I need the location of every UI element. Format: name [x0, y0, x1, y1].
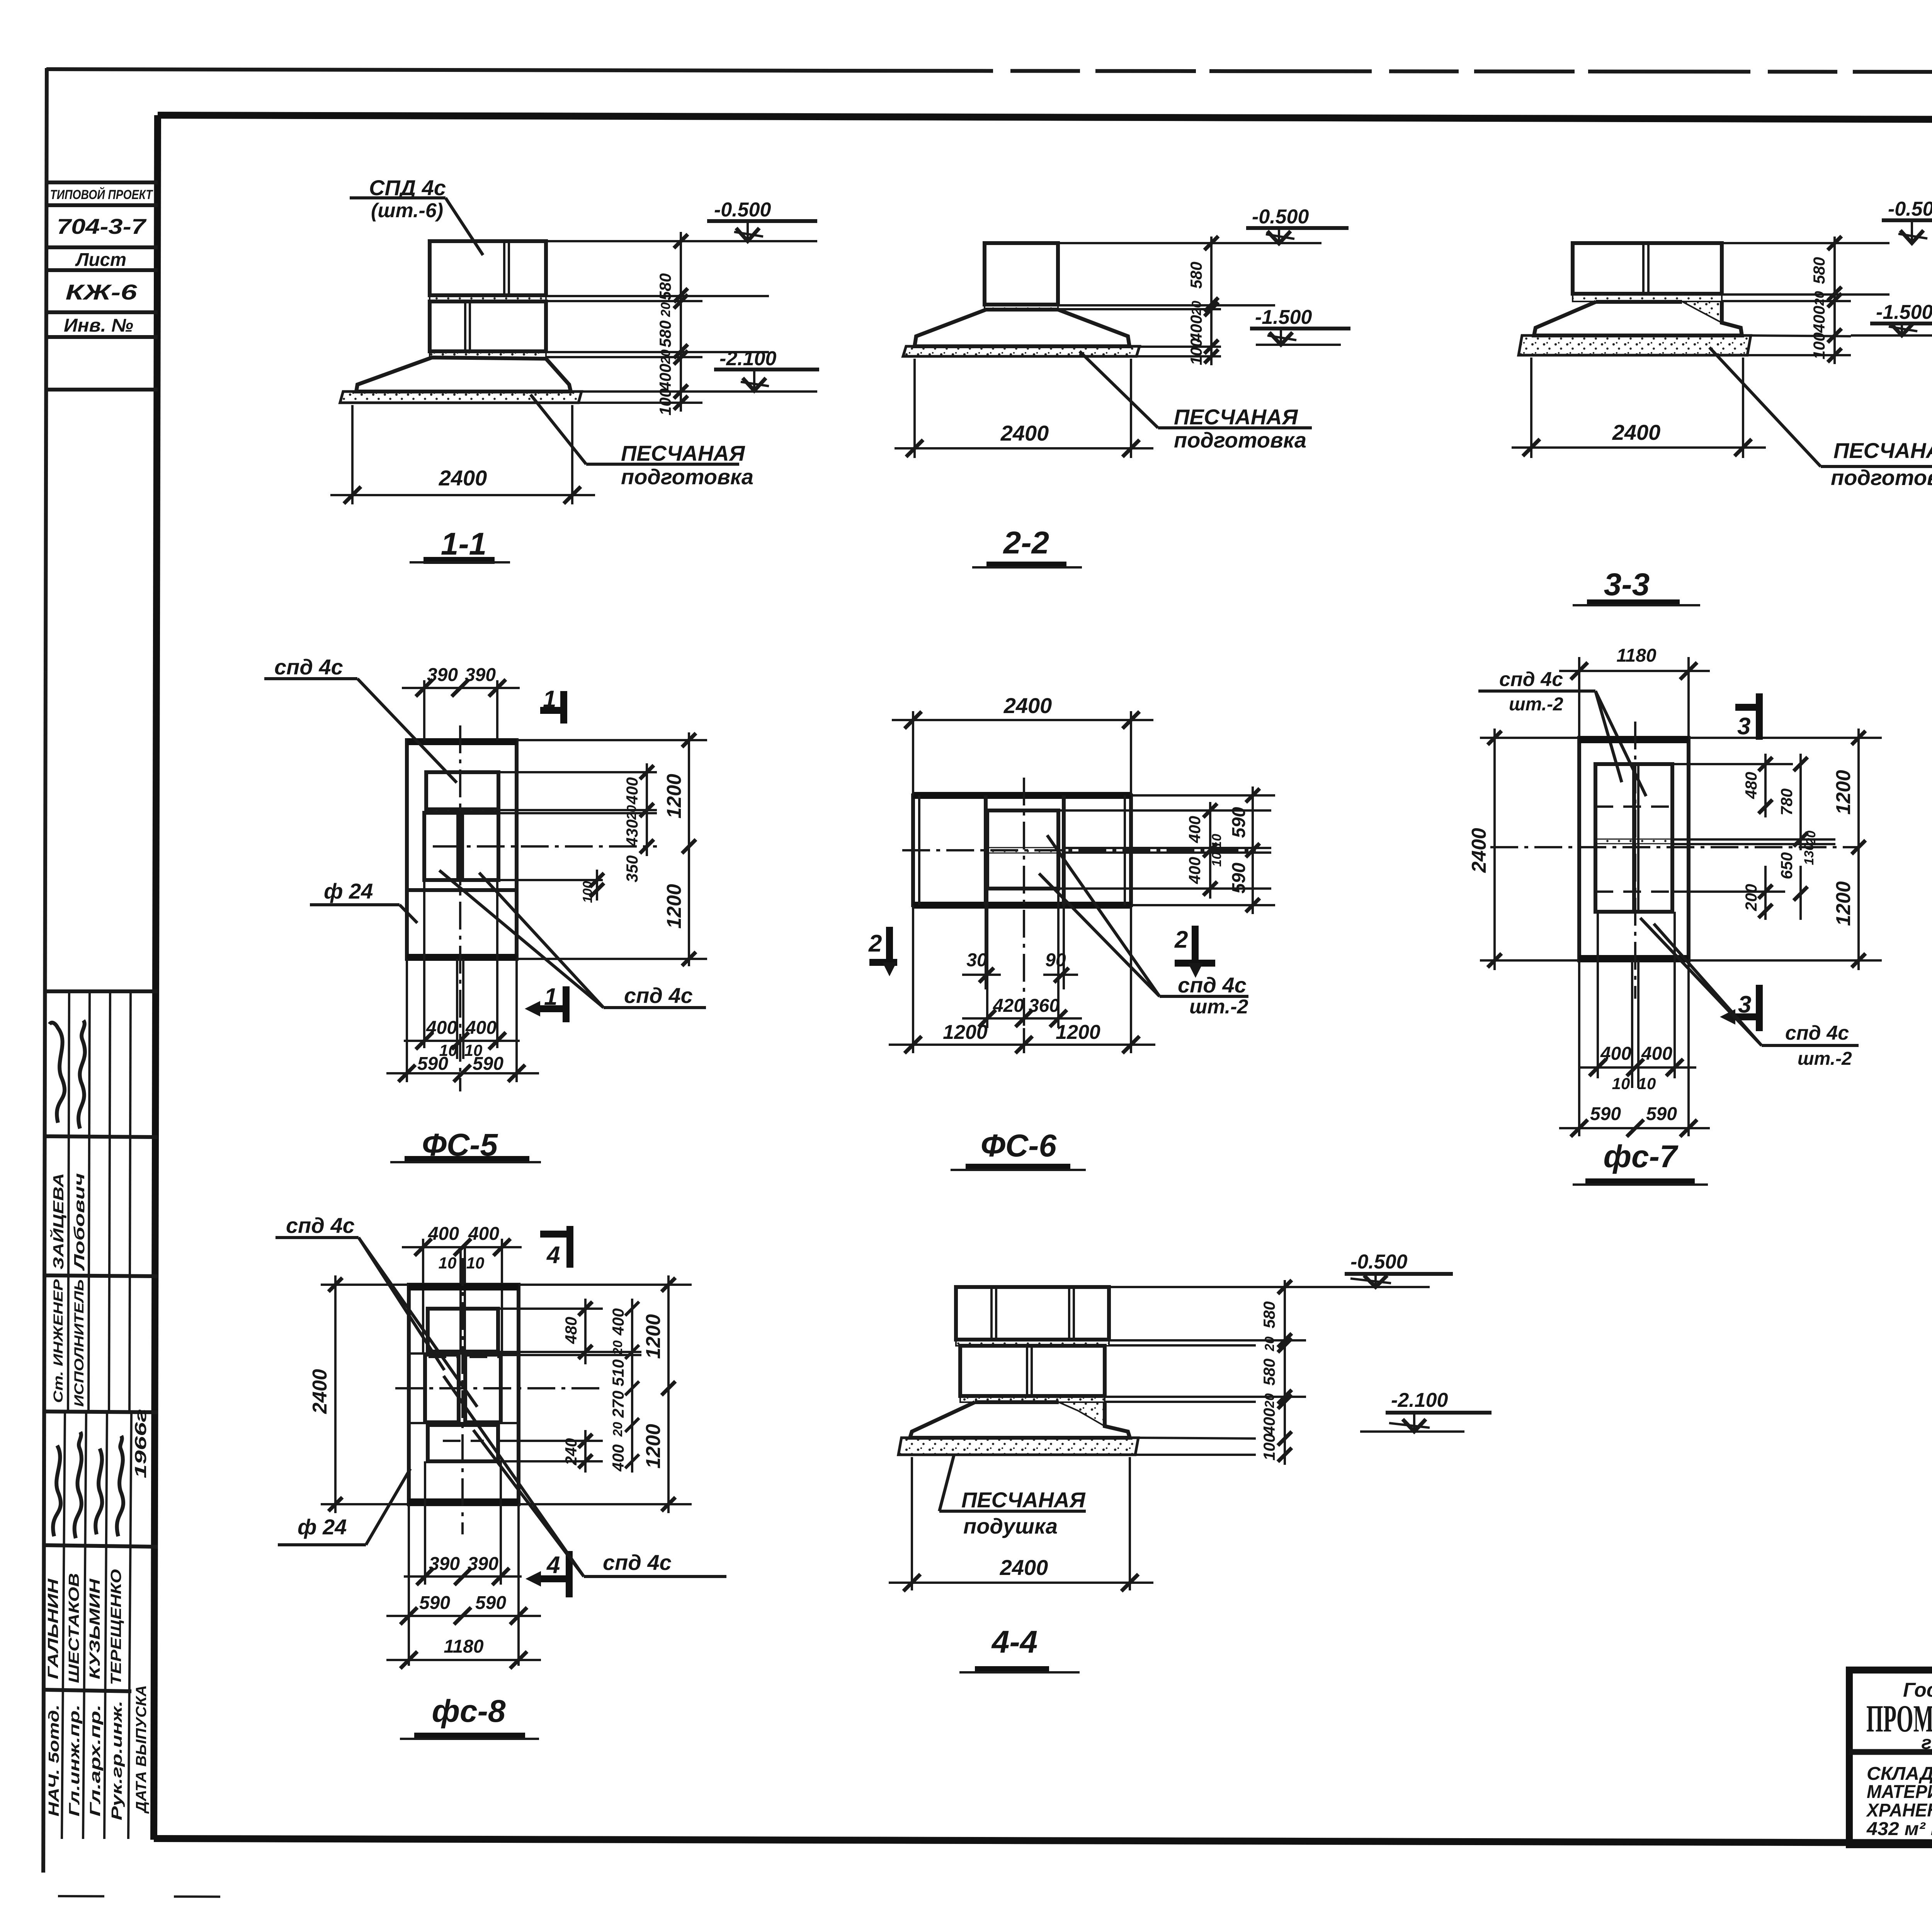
plan ФС-6 center line horizontal (dash-dot) — [902, 849, 1256, 851]
svg-text:Гл.арх.пр.: Гл.арх.пр. — [87, 1704, 104, 1817]
svg-text:1200: 1200 — [1056, 1021, 1100, 1044]
svg-text:-1.500: -1.500 — [1255, 306, 1312, 329]
svg-text:2400: 2400 — [1612, 420, 1661, 444]
svg-text:20: 20 — [1812, 291, 1827, 306]
svg-text:590: 590 — [419, 1593, 450, 1613]
svg-text:ПЕСЧАНАЯ: ПЕСЧАНАЯ — [961, 1488, 1086, 1512]
plan ФС-5 label СПД 4с top left — [264, 655, 457, 783]
svg-text:2400: 2400 — [1003, 693, 1052, 718]
stamp signature squiggle 2 — [78, 1020, 85, 1129]
section 4-4 title — [959, 1624, 1080, 1672]
svg-text:400: 400 — [623, 777, 641, 805]
section 1-1 wall block course 2 — [430, 301, 546, 351]
plan ФС-6 pad outline — [913, 795, 1131, 905]
svg-text:фс-8: фс-8 — [432, 1694, 505, 1729]
svg-text:704-3-7: 704-3-7 — [57, 214, 147, 238]
svg-text:Лист: Лист — [75, 250, 126, 270]
svg-text:(шт.-6): (шт.-6) — [371, 199, 443, 222]
svg-text:ХРАНЕНИЯ ПЛОЩАДЬЮ: ХРАНЕНИЯ ПЛОЩАДЬЮ — [1866, 1800, 1932, 1821]
svg-text:1200: 1200 — [642, 1314, 665, 1359]
svg-text:ПЕСЧАНАЯ: ПЕСЧАНАЯ — [1174, 405, 1298, 429]
stamp lower signature group box — [44, 1412, 158, 1839]
svg-text:270: 270 — [609, 1391, 627, 1418]
plan ФС-7 center line vertical (dash-dot) — [1634, 722, 1636, 999]
main frame left heavy line — [154, 115, 158, 1840]
svg-text:430: 430 — [623, 819, 641, 847]
plan ФС-8 middle wall blocks pair — [425, 1355, 501, 1422]
plan ФС-7 wall blocks inner rectangle — [1595, 764, 1672, 912]
svg-text:20: 20 — [1262, 1393, 1277, 1408]
plan ФС-8 label СПД 4с bottom right with leaders — [444, 1376, 726, 1577]
svg-text:подготовка: подготовка — [1831, 465, 1932, 490]
svg-text:Рук.гр.инж.: Рук.гр.инж. — [109, 1701, 125, 1820]
svg-text:400: 400 — [656, 364, 674, 391]
section 2-2 mortar band — [985, 305, 1058, 310]
svg-text:480: 480 — [562, 1317, 580, 1344]
svg-text:фс-7: фс-7 — [1603, 1139, 1678, 1174]
plan ФС-8 section mark 4 bottom — [526, 1551, 569, 1597]
svg-text:400: 400 — [465, 1018, 497, 1038]
plan ФС-7 inner cross horizontal mortar strip — [1595, 839, 1672, 844]
svg-text:400: 400 — [1600, 1044, 1631, 1064]
svg-text:ПЕСЧАНАЯ: ПЕСЧАНАЯ — [1833, 438, 1932, 463]
plan ФС-7 right chain 480 — [1672, 754, 1793, 817]
svg-text:10: 10 — [1612, 1074, 1630, 1093]
svg-text:1180: 1180 — [1616, 645, 1656, 666]
svg-text:400: 400 — [1641, 1044, 1672, 1064]
svg-text:20: 20 — [611, 1340, 625, 1355]
section 1-1 label Песчаная подготовка — [531, 395, 753, 489]
section 3-3 mortar band — [1573, 294, 1722, 301]
svg-text:400: 400 — [1185, 857, 1204, 884]
section 3-3 elevation mark -0.500 — [1882, 198, 1932, 243]
plan ФС-7 center line horizontal (dash-dot) — [1490, 846, 1859, 848]
section 1-1 elevation mark -0.500 — [707, 199, 817, 241]
section 1-1 dimension 2400 — [330, 405, 595, 504]
plan ФС-5 label СПД 4с bottom right with leaders — [439, 870, 706, 1008]
svg-text:580: 580 — [656, 273, 674, 300]
svg-text:1200: 1200 — [642, 1424, 665, 1469]
svg-text:1: 1 — [544, 984, 557, 1010]
plan ФС-8 right middle chain labels column — [609, 1299, 639, 1473]
plan ФС-6 bottom dimension 1200/1200 — [889, 905, 1155, 1053]
svg-text:1200: 1200 — [663, 884, 685, 929]
plan ФС-6 wall block rectangle — [987, 810, 1058, 889]
svg-text:10: 10 — [439, 1254, 457, 1272]
plan ФС-7 title — [1573, 1139, 1708, 1185]
svg-text:390: 390 — [468, 1554, 498, 1574]
svg-text:580: 580 — [1260, 1359, 1278, 1386]
section 4-4 elevation mark -0.500 — [1329, 1251, 1453, 1287]
outer thin border left line — [43, 68, 47, 1873]
svg-text:590: 590 — [1646, 1104, 1677, 1124]
plan ФС-8 bottom dimension 1180 — [386, 1636, 541, 1668]
svg-text:580: 580 — [1810, 257, 1828, 284]
section 1-1 foundation pad Ф-24 — [356, 358, 571, 392]
svg-text:90: 90 — [1045, 950, 1066, 970]
plan ФС-8 lower wall block — [428, 1425, 498, 1461]
svg-text:390: 390 — [465, 665, 496, 685]
plan ФС-7 pad outline — [1579, 738, 1689, 960]
svg-text:ЗАЙЦЕВА: ЗАЙЦЕВА — [49, 1173, 67, 1270]
svg-text:10: 10 — [466, 1254, 485, 1272]
svg-text:580: 580 — [656, 320, 674, 347]
svg-text:100: 100 — [656, 388, 674, 415]
svg-text:10 10: 10 10 — [1209, 834, 1224, 867]
svg-text:ф 24: ф 24 — [324, 879, 373, 903]
plan ФС-5 pad outline — [407, 740, 517, 959]
svg-text:400: 400 — [609, 1308, 627, 1336]
section 3-3 foundation pad — [1534, 301, 1742, 335]
svg-text:400: 400 — [428, 1224, 459, 1244]
svg-text:-1.500: -1.500 — [1876, 301, 1932, 323]
svg-text:590: 590 — [417, 1054, 448, 1074]
plan ФС-6 mortar joint strip across block — [987, 848, 1058, 853]
section 1-1 title — [410, 526, 510, 562]
plan ФС-6 section mark 2 right — [1174, 926, 1215, 978]
svg-text:20: 20 — [658, 349, 673, 364]
plan ФС-5 center line vertical (dash-dot) — [459, 725, 461, 1091]
svg-text:400: 400 — [1260, 1408, 1278, 1435]
plan ФС-7 bottom dimension 400/400 — [1578, 912, 1696, 1093]
svg-text:подготовка: подготовка — [1174, 428, 1306, 452]
svg-text:-0.500: -0.500 — [1350, 1251, 1408, 1273]
plan ФС-5 lower wall blocks pair — [424, 813, 498, 880]
svg-text:1966г: 1966г — [131, 1409, 150, 1478]
plan ФС-8 right outer chain 1200/1200 — [519, 1275, 692, 1513]
svg-text:Ст. ИНЖЕНЕР: Ст. ИНЖЕНЕР — [51, 1279, 66, 1403]
section 2-2 title — [972, 525, 1082, 567]
svg-text:подушка: подушка — [963, 1514, 1058, 1538]
plan ФС-8 bottom dimension 590/590 — [386, 1504, 541, 1666]
plan ФС-7 bottom dimension 590/590 — [1559, 960, 1710, 1137]
stamp lower signatures squiggles — [53, 1445, 61, 1536]
section 4-4 wall block course 2 — [960, 1346, 1105, 1396]
svg-text:СКЛАД МАСЕЛ И ХИМ-: СКЛАД МАСЕЛ И ХИМ- — [1867, 1764, 1932, 1784]
svg-text:-2.100: -2.100 — [1391, 1389, 1448, 1411]
svg-text:590: 590 — [1229, 807, 1249, 838]
svg-text:подготовка: подготовка — [621, 465, 753, 489]
svg-text:2: 2 — [868, 930, 882, 957]
plan ФС-7 section mark 3 top — [1735, 693, 1759, 740]
section 3-3 dimension 2400 — [1512, 358, 1766, 458]
section 2-2 sand preparation slab — [903, 346, 1139, 356]
svg-text:КУЗЬМИН: КУЗЬМИН — [87, 1578, 103, 1679]
svg-text:2400: 2400 — [439, 466, 487, 490]
svg-text:590: 590 — [1229, 863, 1249, 894]
section 2-2 extension lines right — [1058, 243, 1321, 356]
plan ФС-8 center line vertical (dash-dot) — [461, 1258, 464, 1534]
plan ФС-5 mortar joint strip — [426, 809, 498, 813]
svg-text:3-3: 3-3 — [1604, 567, 1650, 602]
svg-text:КЖ-6: КЖ-6 — [66, 280, 138, 304]
svg-text:510: 510 — [609, 1359, 627, 1386]
plan ФС-6 label СПД 4с шт.-2 with leaders — [1039, 835, 1248, 1018]
plan ФС-5 center line horizontal segment — [433, 845, 657, 848]
outer thin border bottom remnant — [58, 1896, 270, 1897]
plan ФС-6 title — [951, 1128, 1086, 1170]
section 4-4 dimension 2400 — [889, 1457, 1153, 1591]
plan ФС-8 pad outline — [409, 1285, 519, 1504]
svg-text:ИСПОЛНИТЕЛЬ: ИСПОЛНИТЕЛЬ — [72, 1279, 87, 1407]
section 2-2 dimension 2400 — [895, 359, 1153, 458]
plan ФС-8 mortar strip upper — [428, 1352, 498, 1355]
section 1-1 mortar band 1 — [430, 295, 546, 301]
svg-text:20: 20 — [658, 302, 673, 317]
svg-text:2-2: 2-2 — [1003, 525, 1049, 560]
svg-text:4-4: 4-4 — [991, 1624, 1038, 1660]
plan ФС-8 right chain 480 upper — [498, 1299, 641, 1364]
svg-text:-2.100: -2.100 — [719, 347, 777, 370]
svg-text:100: 100 — [1810, 332, 1828, 359]
section 2-2 vertical dimension chain — [1204, 236, 1218, 365]
svg-text:580: 580 — [1260, 1301, 1278, 1328]
svg-text:ТИПОВОЙ ПРОЕКТ: ТИПОВОЙ ПРОЕКТ — [50, 187, 154, 202]
plan ФС-7 label СПД 4с шт.-2 top left — [1478, 668, 1646, 796]
svg-text:шт.-2: шт.-2 — [1189, 996, 1248, 1018]
svg-text:шт.-2: шт.-2 — [1509, 694, 1563, 715]
svg-text:20: 20 — [1262, 1336, 1277, 1352]
section 3-3 extension lines right — [1722, 243, 1889, 355]
section 3-3 sand preparation slab — [1519, 335, 1751, 355]
plan ФС-5 right inner dimension chain — [498, 763, 657, 901]
plan ФС-8 top dimension 400/400 with 10/10 — [402, 1224, 522, 1353]
plan ФС-5 dimension 390,390 top — [402, 665, 520, 740]
section 2-2 label Песчаная подготовка — [1080, 351, 1312, 452]
plan ФС-7 hidden edge dashed lines — [1595, 807, 1672, 892]
plan ФС-8 title — [400, 1694, 539, 1739]
section 4-4 mortar wedge right — [1059, 1402, 1105, 1426]
svg-text:2400: 2400 — [1000, 421, 1049, 445]
svg-text:1: 1 — [543, 686, 556, 713]
svg-text:390: 390 — [427, 665, 458, 685]
svg-text:2400: 2400 — [1000, 1555, 1048, 1580]
section 1-1 label СПД 4с (шт.-6) — [350, 175, 483, 255]
section 4-4 label Песчаная подушка — [939, 1455, 1086, 1538]
svg-text:1200: 1200 — [1832, 881, 1855, 926]
svg-text:390: 390 — [429, 1554, 460, 1574]
section 2-2 foundation pad — [915, 310, 1129, 346]
svg-text:2: 2 — [1174, 926, 1188, 953]
svg-text:432 м² БЕЗ РАМПЫ: 432 м² БЕЗ РАМПЫ — [1866, 1819, 1932, 1839]
svg-text:400: 400 — [468, 1224, 499, 1244]
plan ФС-6 section mark 2 left — [868, 927, 897, 976]
section 1-1 wall block course 1 — [430, 241, 546, 295]
svg-text:спд 4с: спд 4с — [624, 983, 693, 1008]
svg-text:780: 780 — [1777, 788, 1796, 815]
svg-text:200: 200 — [1742, 884, 1760, 911]
plan ФС-6 top dimension 2400 — [892, 693, 1153, 795]
svg-text:590: 590 — [475, 1593, 506, 1613]
svg-text:3: 3 — [1737, 713, 1750, 740]
section 1-1 vertical dimension chain — [674, 232, 688, 412]
svg-text:спд 4с: спд 4с — [1178, 973, 1247, 997]
svg-text:20: 20 — [624, 805, 639, 820]
plan ФС-8 bottom dimension 390/390 — [404, 1461, 522, 1585]
svg-text:шт.-2: шт.-2 — [1798, 1049, 1852, 1069]
svg-text:ф 24: ф 24 — [298, 1515, 347, 1539]
section 2-2 elevation mark -0.500 — [1246, 206, 1349, 243]
svg-text:2400: 2400 — [1468, 828, 1490, 873]
plan ФС-6 bottom dimension 420/360 — [962, 996, 1082, 1027]
section 4-4 sand cushion slab — [898, 1438, 1138, 1455]
svg-text:спд 4с: спд 4с — [274, 655, 343, 679]
main frame bottom heavy line — [154, 1839, 1932, 1844]
plan ФС-7 left dimension 2400 — [1468, 729, 1579, 970]
plan ФС-7 inner cross vertical joint — [1634, 764, 1638, 912]
section 3-3 label Песчаная подготовка — [1709, 347, 1932, 490]
section 1-1 sand preparation slab — [340, 392, 582, 403]
plan ФС-5 bottom dimension 400/400 — [404, 882, 520, 1059]
svg-text:590: 590 — [473, 1054, 503, 1074]
svg-text:360: 360 — [1029, 996, 1060, 1016]
plan ФС-7 section mark 3 bottom — [1720, 985, 1759, 1031]
plan ФС-8 left dimension 2400 — [309, 1275, 409, 1513]
svg-text:4: 4 — [546, 1552, 560, 1578]
outer thin border top line — [46, 69, 1932, 73]
svg-text:МАТЕРИАЛОВ ТАРНОГО: МАТЕРИАЛОВ ТАРНОГО — [1867, 1782, 1932, 1802]
stamp signature squiggle 1 — [49, 1023, 65, 1123]
svg-text:ГАЛЬНИН: ГАЛЬНИН — [45, 1578, 61, 1679]
plan ФС-6 middle block column edges — [986, 795, 1064, 905]
section 1-1 mortar band 2 — [430, 351, 546, 358]
plan ФС-8 label Ф 24 bottom left — [278, 1469, 410, 1545]
svg-text:420: 420 — [993, 996, 1024, 1016]
plan ФС-7 label СПД 4с шт.-2 bottom right — [1640, 918, 1859, 1069]
svg-text:1180: 1180 — [444, 1636, 484, 1657]
svg-text:400: 400 — [609, 1444, 627, 1472]
svg-text:ТЕРЕЩЕНКО: ТЕРЕЩЕНКО — [108, 1569, 124, 1685]
title block left box Промстройпроект — [1849, 1670, 1932, 1845]
svg-text:ФС-6: ФС-6 — [981, 1128, 1057, 1163]
plan ФС-8 label СПД 4с top left — [276, 1213, 477, 1407]
section 4-4 vertical dimension chain — [1278, 1280, 1292, 1465]
section 4-4 extension lines right — [1105, 1287, 1329, 1455]
svg-text:1-1: 1-1 — [441, 526, 487, 562]
svg-text:1200: 1200 — [1832, 770, 1855, 815]
svg-text:спд 4с: спд 4с — [1785, 1022, 1849, 1044]
svg-text:590: 590 — [1590, 1104, 1621, 1124]
main frame top heavy line — [158, 115, 1932, 121]
plan ФС-6 right outer chain 590/590 — [1131, 787, 1275, 914]
svg-text:400: 400 — [1810, 306, 1828, 333]
plan ФС-8 right chain 240 lower — [498, 1430, 603, 1473]
svg-text:1200: 1200 — [943, 1021, 988, 1044]
plan ФС-5 section mark 1 top — [540, 686, 564, 724]
plan ФС-5 right outer dimension chain 1200/1200 — [517, 732, 707, 966]
svg-text:-0.500: -0.500 — [714, 199, 771, 221]
svg-text:спд 4с: спд 4с — [1499, 668, 1563, 691]
plan ФС-7 right chain 650/130 lower — [1672, 843, 1816, 920]
plan ФС-5 title — [390, 1127, 541, 1163]
svg-text:ДАТА ВЫПУСКА: ДАТА ВЫПУСКА — [133, 1685, 150, 1814]
svg-text:-0.500: -0.500 — [1888, 198, 1932, 220]
plan ФС-8 hidden edge dashes — [429, 1357, 500, 1441]
svg-text:650: 650 — [1777, 852, 1796, 879]
section 4-4 foundation pad — [910, 1402, 1130, 1438]
plan ФС-7 top dimension 1180 — [1559, 645, 1710, 738]
svg-text:1200: 1200 — [663, 774, 685, 819]
svg-text:400: 400 — [1185, 816, 1204, 843]
section 1-1 elevation mark -2.100 — [714, 347, 819, 391]
section 4-4 elevation mark -2.100 — [1360, 1389, 1492, 1432]
svg-text:480: 480 — [1742, 772, 1760, 799]
svg-text:г Москва-1966г: г Москва-1966г — [1922, 1733, 1932, 1753]
svg-text:спд 4с: спд 4с — [603, 1550, 672, 1575]
svg-text:240: 240 — [562, 1438, 580, 1466]
plan ФС-6 right dimension chain 400/10/400 — [1058, 802, 1271, 899]
svg-text:СПД 4с: СПД 4с — [369, 175, 446, 200]
plan ФС-8 upper wall block — [428, 1309, 498, 1352]
svg-text:20: 20 — [1189, 301, 1204, 316]
plan ФС-7 right chain 780 — [1672, 754, 1835, 850]
title block top line across — [1849, 1670, 1932, 1670]
plan ФС-8 center line horizontal (dash-dot) — [395, 1387, 604, 1389]
svg-text:350: 350 — [623, 855, 641, 882]
stamp upper signature group box — [45, 991, 158, 1412]
svg-text:100: 100 — [580, 881, 595, 903]
section 2-2 elevation mark -1.500 — [1250, 306, 1350, 345]
svg-text:Инв. №: Инв. № — [64, 315, 133, 336]
plan ФС-6 bottom small dims 30 and 90 — [962, 889, 1078, 1028]
section 4-4 mortar band 1 — [956, 1340, 1109, 1346]
svg-text:ПЕСЧАНАЯ: ПЕСЧАНАЯ — [621, 441, 745, 465]
svg-text:580: 580 — [1187, 262, 1205, 289]
svg-text:-0.500: -0.500 — [1252, 206, 1309, 228]
section 3-3 wall blocks — [1573, 243, 1722, 294]
plan ФС-7 right outer chain 1200/1200 — [1689, 729, 1882, 970]
plan ФС-5 upper wall block — [426, 772, 498, 809]
svg-text:НАЧ. 5отд.: НАЧ. 5отд. — [46, 1704, 62, 1817]
plan ФС-6 center line vertical (dash-dot) — [1023, 778, 1025, 1028]
svg-text:Лобович: Лобович — [71, 1173, 88, 1272]
section 4-4 wall block course 1 — [956, 1287, 1109, 1340]
svg-text:20: 20 — [611, 1422, 625, 1437]
plan ФС-5 bottom dimension 590/590 — [386, 959, 539, 1082]
svg-text:Гл.инж.пр.: Гл.инж.пр. — [66, 1704, 83, 1817]
plan ФС-5 section mark 1 bottom — [525, 984, 566, 1022]
plan ФС-5 label Ф 24 — [310, 879, 417, 923]
section 3-3 title — [1573, 567, 1700, 605]
stamp column upper boxes — [46, 182, 158, 390]
svg-text:2400: 2400 — [309, 1369, 331, 1414]
section 3-3 vertical dimension chain — [1828, 236, 1842, 364]
svg-text:400: 400 — [426, 1018, 457, 1038]
svg-text:30: 30 — [966, 950, 987, 970]
svg-text:4: 4 — [546, 1242, 560, 1268]
svg-text:спд 4с: спд 4с — [286, 1213, 355, 1238]
plan ФС-8 section mark 4 top — [540, 1226, 570, 1268]
svg-text:3: 3 — [1738, 991, 1751, 1018]
svg-text:100: 100 — [1187, 338, 1205, 365]
section 4-4 mortar band 2 — [960, 1396, 1105, 1402]
svg-text:ШЕСТАКОВ: ШЕСТАКОВ — [66, 1573, 82, 1683]
svg-text:100: 100 — [1260, 1433, 1278, 1461]
svg-text:10: 10 — [1638, 1074, 1656, 1093]
section 1-1 extension lines right — [546, 241, 817, 403]
section 3-3 elevation mark -1.500 — [1851, 301, 1932, 335]
svg-text:130: 130 — [1802, 843, 1816, 865]
section 3-3 mortar wedge under right block — [1682, 301, 1722, 323]
section 2-2 wall block — [985, 243, 1058, 305]
